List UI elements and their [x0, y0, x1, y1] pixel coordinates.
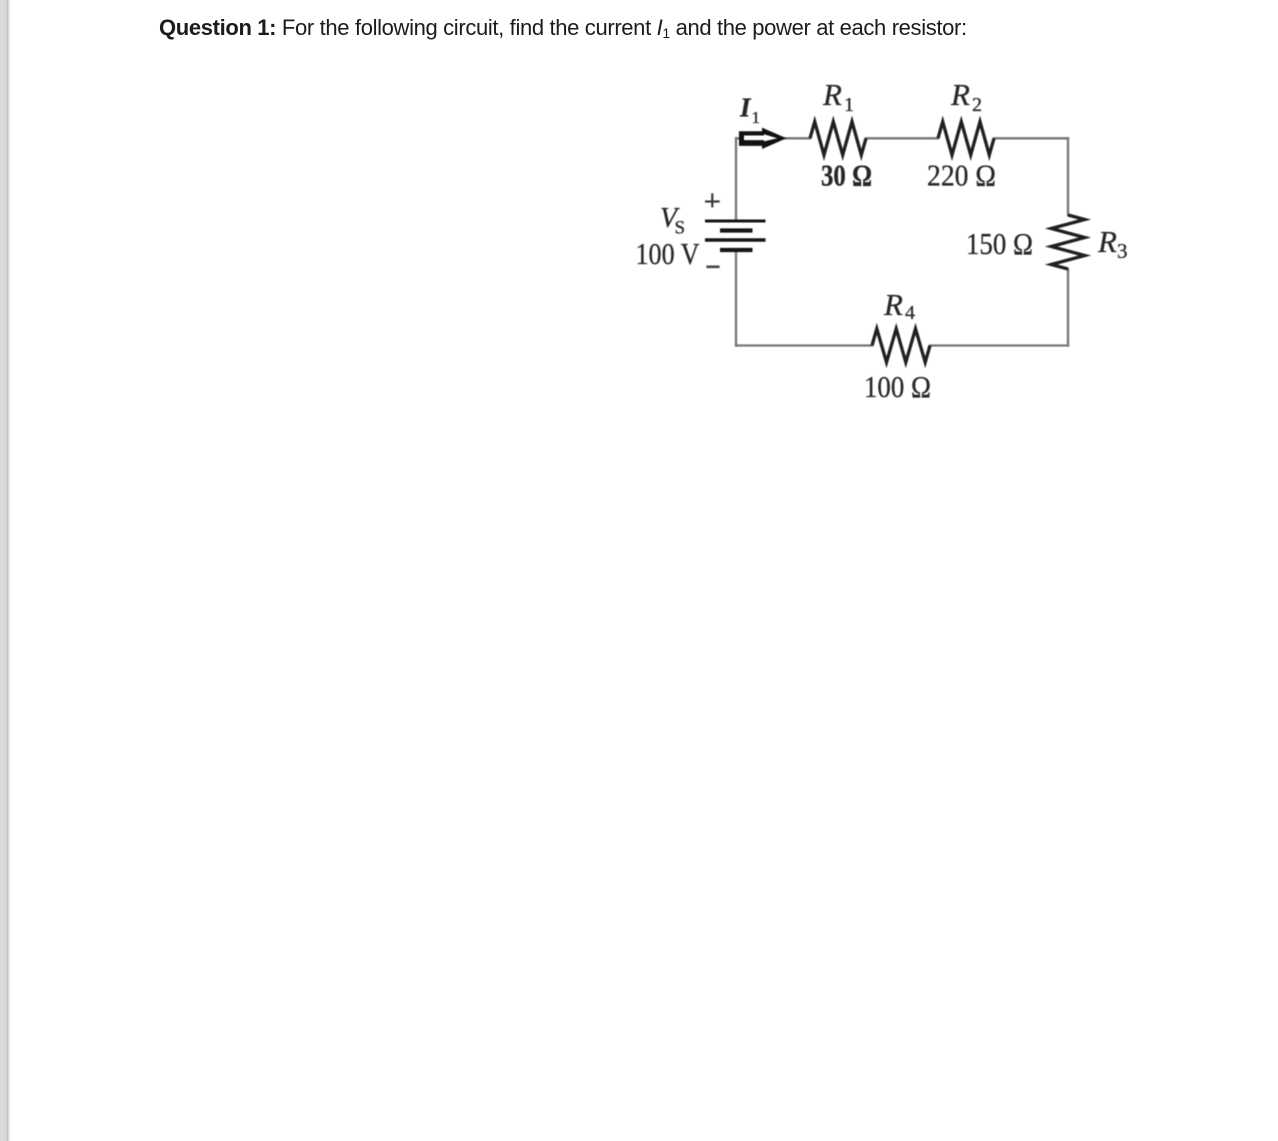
page left edge strip [0, 0, 11, 1141]
svg-text:100 Ω: 100 Ω [864, 369, 931, 404]
svg-text:R: R [822, 77, 842, 112]
svg-text:I: I [739, 93, 752, 123]
wire: right upper (corner to R3) [1067, 137, 1069, 216]
svg-text:1: 1 [752, 108, 761, 127]
wire: bottom right (corner to R4) [929, 344, 1069, 346]
resistor R4 zigzag [872, 329, 930, 363]
question text [159, 17, 967, 39]
wire: bottom left (R4 to corner) [735, 344, 873, 346]
svg-text:1: 1 [844, 94, 854, 116]
svg-text:220 Ω: 220 Ω [927, 158, 996, 193]
battery plus sign [705, 193, 720, 207]
svg-text:150 Ω: 150 Ω [966, 226, 1033, 261]
current arrow I1 white core [744, 134, 777, 141]
wire: left lower (battery minus to bottom corner) [735, 250, 737, 347]
current arrow I1 outline [739, 128, 787, 149]
voltage source VS battery plate long top [705, 220, 766, 223]
voltage source VS battery plate long lower [705, 238, 766, 241]
resistor R1 zigzag [810, 122, 866, 155]
wire: top middle (R1 to R2) [865, 137, 939, 139]
wire: left upper (top corner to battery plus) [735, 137, 737, 221]
voltage source VS battery plate short bottom [720, 248, 753, 252]
svg-text:R: R [950, 77, 970, 112]
svg-text:30 Ω: 30 Ω [821, 158, 872, 193]
svg-text:100 V: 100 V [636, 236, 701, 271]
wire: top-left horizontal (behind arrow) [735, 137, 811, 139]
battery minus sign [706, 265, 719, 268]
svg-text:R: R [1097, 224, 1117, 259]
wire: top right (R2 to corner) [993, 137, 1069, 139]
resistor R2 zigzag [938, 122, 994, 155]
wire: right lower (R3 to corner) [1067, 268, 1069, 347]
svg-text:3: 3 [1117, 239, 1128, 263]
voltage source VS battery plate short upper [720, 228, 753, 232]
svg-text:R: R [883, 287, 903, 322]
svg-text:4: 4 [905, 302, 915, 324]
svg-text:2: 2 [972, 94, 982, 116]
resistor R3 zigzag (vertical) [1051, 215, 1085, 269]
